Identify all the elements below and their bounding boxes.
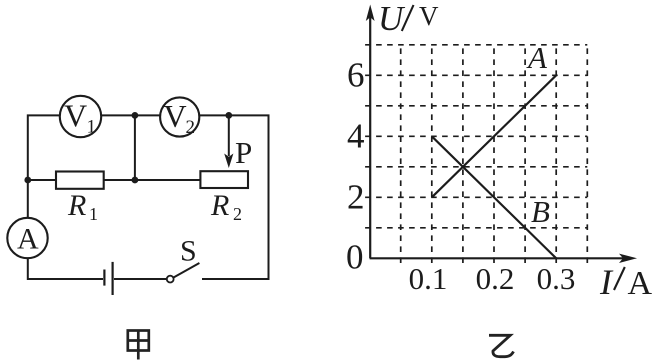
svg-text:0: 0 [346, 238, 364, 277]
svg-text:1: 1 [89, 204, 98, 224]
svg-text:1: 1 [87, 117, 97, 138]
svg-text:S: S [180, 235, 197, 268]
svg-text:2: 2 [347, 178, 365, 217]
svg-text:A: A [17, 223, 39, 256]
svg-text:I: I [599, 262, 614, 302]
svg-text:U: U [378, 0, 406, 38]
svg-text:V: V [64, 98, 87, 134]
svg-text:P: P [235, 135, 252, 170]
svg-text:0.1: 0.1 [409, 261, 448, 296]
svg-text:2: 2 [186, 117, 196, 138]
svg-text:V: V [419, 1, 439, 31]
svg-text:0.3: 0.3 [537, 261, 576, 296]
svg-text:A: A [628, 265, 653, 302]
svg-text:A: A [526, 40, 548, 75]
svg-text:4: 4 [347, 117, 365, 156]
svg-text:R: R [210, 189, 229, 222]
svg-text:B: B [531, 194, 550, 229]
svg-text:R: R [67, 189, 86, 222]
svg-text:0.2: 0.2 [476, 261, 515, 296]
svg-text:2: 2 [233, 204, 242, 224]
svg-text:V: V [164, 98, 187, 134]
svg-text:6: 6 [347, 56, 365, 95]
